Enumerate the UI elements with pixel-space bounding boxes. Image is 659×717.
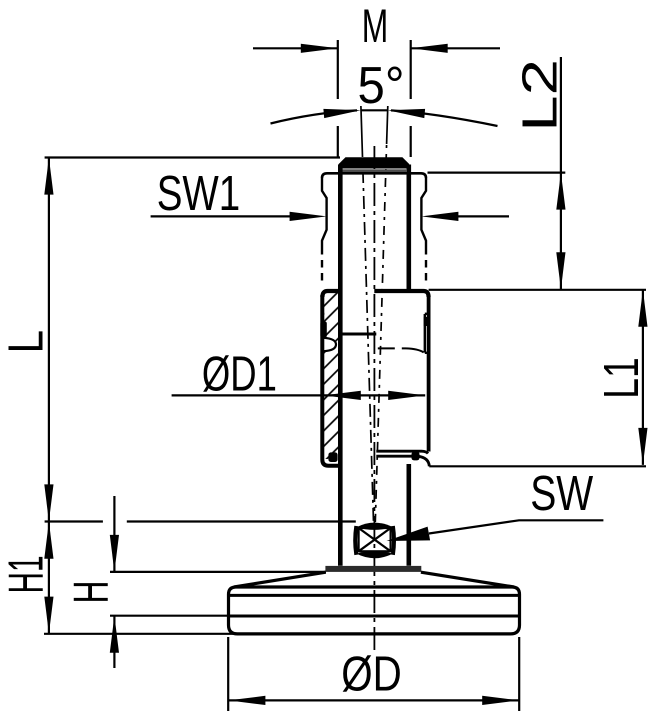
base rim outline: [229, 587, 520, 634]
svg-text:ØD1: ØD1: [202, 348, 277, 402]
reference line ball top (for L and H1): [45, 520, 356, 522]
dimension H line and arrows: [110, 496, 326, 668]
dimension H1 line and arrows: [48, 522, 50, 634]
dimension H label (rotated): [65, 581, 119, 604]
svg-text:L: L: [0, 330, 53, 354]
centerline (vertical axis): [373, 146, 375, 651]
dimension SW1 leader lines and arrows: [151, 215, 509, 217]
housing hatch (section) left wall: [323, 293, 341, 459]
hidden thread end line (right of axis, dashed): [378, 348, 424, 352]
o-ring dot bottom left (black): [328, 452, 337, 462]
dimension SW leader line and arrow: [429, 520, 604, 533]
housing left outer wall: [322, 295, 339, 466]
svg-text:H: H: [65, 581, 119, 604]
threaded spindle left outline: [338, 165, 343, 566]
o-ring left (black): [320, 322, 326, 338]
threaded spindle right outline (upper): [406, 165, 411, 292]
locknut top edge: [322, 173, 426, 178]
dimension D1 leader line and arrows: [172, 394, 426, 396]
thread end line (left of axis): [341, 333, 376, 336]
flange plate under spindle: [325, 566, 421, 572]
threaded spindle right outline (lower): [406, 464, 411, 566]
dimension L line and arrows: [45, 158, 340, 522]
svg-text:M: M: [362, 0, 389, 52]
locknut left profile with wrench-flat notch: [322, 178, 327, 283]
dimension 5 degrees arc and arrows: [271, 110, 498, 126]
o-ring tick right (thick): [424, 317, 428, 326]
locknut right profile with wrench-flat notch: [421, 178, 426, 283]
housing groove right inner line: [425, 314, 429, 353]
wrench-flat square with cross: [359, 528, 391, 551]
base cone slant right: [421, 572, 514, 587]
dimension L1 label (rotated): [595, 357, 649, 398]
5-degree tilt line right: [375, 106, 388, 522]
dimension L1 line and arrows: [429, 290, 646, 467]
base cone slant left: [234, 572, 326, 587]
housing groove white gap: [321, 338, 335, 352]
housing top edge left segment: [322, 291, 339, 297]
dimension L label (rotated): [0, 330, 53, 354]
svg-text:SW1: SW1: [157, 167, 241, 221]
ball top reference arc (black lens): [356, 523, 392, 530]
base band line 2 (rubber pad top): [229, 615, 520, 618]
housing bottom inner shoulder lines: [376, 451, 429, 466]
protective cap (black) on spindle top: [339, 157, 410, 168]
5-degree tilt line left: [361, 106, 374, 522]
svg-text:SW: SW: [530, 467, 594, 521]
dimension L2 line and arrows: [428, 57, 566, 289]
base band line 1: [229, 594, 520, 597]
reference line ground (bottom): [44, 633, 240, 635]
svg-text:5°: 5°: [358, 57, 405, 115]
svg-text:H1: H1: [0, 556, 54, 594]
svg-text:L1: L1: [595, 357, 649, 398]
dimension D line and arrows: [228, 637, 519, 711]
dimension M line and arrows: [253, 40, 500, 157]
dimension L2 label (rotated): [514, 59, 568, 132]
ball cylinder sides: [355, 526, 394, 555]
o-ring groove arc left: [323, 338, 336, 351]
housing right outer wall: [427, 295, 431, 452]
left wall step tick: [321, 313, 325, 315]
cap lower grey band: [341, 169, 406, 172]
housing top edge right segment: [374, 291, 428, 297]
dimension H1 label (rotated): [0, 556, 54, 594]
svg-text:ØD: ØD: [341, 648, 402, 702]
o-ring dot bottom right (black): [412, 452, 420, 461]
svg-text:L2: L2: [514, 59, 568, 132]
ball bottom arc (black lens): [356, 551, 392, 558]
